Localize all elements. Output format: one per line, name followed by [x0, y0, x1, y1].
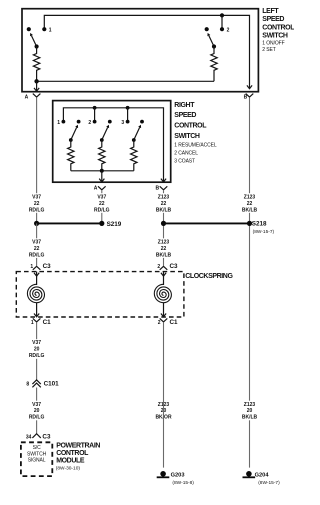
svg-text:1: 1 [57, 120, 60, 126]
node 3 (right speed control switch) [126, 106, 130, 110]
label wire Z123 22 BK/LB (col B left box) [237, 193, 262, 213]
svg-text:G203: G203 [171, 472, 185, 478]
label wire Z123 22 BK/LB (below junction) [151, 238, 176, 258]
wire A drop to box edge [36, 81, 38, 91]
svg-text:SIGNAL: SIGNAL [28, 458, 46, 464]
svg-text:BK/LB: BK/LB [242, 208, 258, 214]
svg-text:RD/LG: RD/LG [29, 208, 45, 214]
label wire V37 22 RD/LG (col A right box) [89, 193, 114, 213]
node 1 (left speed control switch) [42, 27, 46, 31]
coil left (clockspring spiral) [27, 284, 44, 302]
switch blade S4 (cancel) [102, 128, 108, 141]
wire splice jumper S218 [164, 222, 250, 224]
switch blade S2 (set) [209, 36, 214, 47]
wire resistor bottoms bus y81 [37, 80, 214, 82]
wire Z123 from right box pin B down [163, 190, 165, 266]
left speed control switch box outline [22, 9, 258, 92]
arrow at pin B exit (right box) [161, 179, 166, 182]
wire top bus inside left switch box [44, 15, 249, 88]
label wire Z123 22 BK/LB (col B right box) [151, 193, 176, 213]
switch blade S3 (resume/accel) [71, 128, 77, 141]
arrow at pin A exit [34, 88, 39, 91]
right speed control switch box outline [53, 101, 171, 183]
svg-text:S/C: S/C [33, 445, 42, 451]
arrow at pin B exit [247, 85, 252, 88]
svg-text:22: 22 [34, 246, 40, 252]
wire V37 from C1 down to C101 [36, 322, 38, 380]
contact dot left of node 2 [205, 27, 209, 31]
svg-text:V37: V37 [32, 340, 41, 346]
svg-text:2: 2 [88, 120, 91, 126]
label wire V37 20 RD/LG (below C101) [24, 401, 49, 421]
wire top bus inside right switch box [63, 108, 163, 182]
connector chevron pin B (right box) [160, 186, 168, 190]
svg-text:A: A [25, 94, 29, 100]
svg-text:V37: V37 [97, 194, 106, 200]
powertrain control module dashed box [21, 442, 52, 476]
connector chevron pin 2 C1 [160, 318, 168, 322]
connector chevron pin 34 C3 PCM [32, 434, 40, 438]
svg-text:(8W-30-10): (8W-30-10) [56, 466, 81, 472]
svg-text:BK/LB: BK/LB [156, 253, 172, 259]
svg-text:Z123: Z123 [244, 402, 256, 408]
svg-text:22: 22 [99, 201, 105, 207]
svg-text:RD/LG: RD/LG [29, 353, 45, 359]
resistor R1 (on/off) [33, 47, 39, 82]
svg-text:C3: C3 [43, 263, 52, 270]
svg-text:3 COAST: 3 COAST [174, 158, 195, 164]
svg-text:3: 3 [121, 120, 124, 126]
connector chevron pin A (right box) [98, 186, 106, 190]
svg-text:BK/LB: BK/LB [242, 415, 258, 421]
svg-text:22: 22 [161, 246, 167, 252]
switch blade S1 (on/off) [32, 36, 37, 47]
svg-text:2 CANCEL: 2 CANCEL [174, 150, 198, 156]
svg-text:20: 20 [34, 347, 40, 353]
wire into clockspring pin 2 with arrow [163, 272, 165, 285]
svg-text:V37: V37 [32, 402, 41, 408]
svg-text:(8W-15-8): (8W-15-8) [172, 480, 194, 486]
wire splice jumper S219 [37, 222, 102, 224]
contact dot left of node 1 [27, 27, 31, 31]
svg-text:POWERTRAIN: POWERTRAIN [56, 443, 100, 450]
svg-text:CONTROL: CONTROL [174, 123, 207, 130]
svg-text:1: 1 [49, 28, 52, 34]
svg-text:RD/LG: RD/LG [29, 253, 45, 259]
svg-text:22: 22 [247, 201, 253, 207]
svg-text:B: B [155, 185, 159, 191]
svg-text:C3: C3 [170, 263, 179, 270]
svg-text:BK/LB: BK/LB [156, 208, 172, 214]
wire Z123 from left box pin B down [249, 97, 251, 467]
junction dot at A drop (right box) [100, 169, 104, 173]
svg-text:SWITCH: SWITCH [27, 451, 47, 457]
wire resistor bottoms bus y171 [71, 170, 134, 172]
resistor R3 (resume/accel) [68, 140, 74, 171]
node 1 (right speed control switch) [62, 120, 66, 124]
junction dot left [34, 221, 39, 226]
node 2 (left speed control switch) [220, 13, 224, 17]
wire A drop to box edge [101, 171, 103, 182]
svg-text:2: 2 [157, 264, 160, 270]
svg-text:C1: C1 [170, 319, 179, 326]
wire V37 from right box pin A down [101, 190, 103, 223]
resistor R2 (set) [211, 47, 217, 82]
svg-text:20: 20 [34, 408, 40, 414]
contact dot right of node 3 [140, 120, 144, 124]
connector chevron pin B [246, 94, 254, 98]
wire out of clockspring pin 1 with arrow [36, 303, 38, 317]
svg-text:SWITCH: SWITCH [174, 133, 200, 140]
coil right (clockspring spiral) [154, 284, 171, 302]
svg-text:8: 8 [26, 381, 29, 387]
wire V37 from left box pin A down [36, 97, 38, 223]
svg-text:RD/LG: RD/LG [29, 415, 45, 421]
svg-text:22: 22 [161, 201, 167, 207]
wire into clockspring pin 1 with arrow [36, 272, 38, 285]
svg-text:1 RESUME/ACCEL: 1 RESUME/ACCEL [174, 142, 217, 148]
node 2 (right speed control switch) [93, 106, 97, 110]
resistor R5 (coast) [131, 140, 137, 171]
contact dot right of node 2 [108, 120, 112, 124]
svg-text:C1: C1 [43, 319, 52, 326]
splice S218 [247, 221, 252, 226]
svg-text:CONTROL: CONTROL [262, 24, 294, 31]
svg-text:G204: G204 [255, 472, 270, 478]
label wire V37 22 RD/LG (col A left) [24, 193, 49, 213]
ground G203 [157, 471, 195, 486]
label wire V37 20 RD/LG (below C1) [24, 339, 49, 359]
svg-text:C3: C3 [42, 433, 51, 440]
svg-text:LEFT: LEFT [262, 8, 279, 15]
svg-text:2 SET: 2 SET [262, 47, 275, 53]
svg-text:(8W-15-7): (8W-15-7) [258, 480, 280, 486]
svg-text:SPEED: SPEED [174, 112, 196, 119]
svg-text:RIGHT: RIGHT [174, 102, 195, 109]
svg-text:B: B [244, 94, 248, 100]
wire Z123 from C1 pin2 down to G203 [163, 322, 165, 468]
svg-text:20: 20 [247, 408, 253, 414]
junction dot z123 [161, 221, 166, 226]
svg-text:2: 2 [227, 28, 230, 34]
svg-text:2: 2 [158, 320, 161, 326]
resistor R4 (cancel) [99, 140, 105, 171]
svg-text:SWITCH: SWITCH [262, 33, 288, 40]
junction dot at A drop [34, 79, 38, 83]
svg-text:Z123: Z123 [158, 239, 170, 245]
svg-text:(8W-15-7): (8W-15-7) [253, 229, 275, 235]
wire out of clockspring pin 2 with arrow [163, 303, 165, 317]
label wire Z123 20 BK/OR (to G203) [151, 401, 176, 421]
contact dot right of node 1 [77, 120, 81, 124]
svg-text:SPEED: SPEED [262, 16, 284, 23]
connector chevron pin 2 C3 clockspring [160, 266, 168, 270]
in-line connector C101 (double chevron) [32, 380, 40, 384]
svg-text:S218: S218 [252, 221, 267, 228]
svg-text:CONTROL: CONTROL [56, 450, 89, 457]
label wire Z123 20 BK/LB (to G204) [237, 401, 262, 421]
svg-text:V37: V37 [32, 194, 41, 200]
svg-text:V37: V37 [32, 239, 41, 245]
wire V37 below S219 [36, 223, 38, 265]
svg-text:Z123: Z123 [244, 194, 256, 200]
svg-text:1 ON/OFF: 1 ON/OFF [262, 40, 284, 46]
connector chevron pin A [33, 94, 41, 98]
svg-text:CLOCKSPRING: CLOCKSPRING [185, 273, 233, 280]
svg-text:22: 22 [34, 201, 40, 207]
svg-text:1: 1 [30, 264, 33, 270]
svg-text:Z123: Z123 [158, 194, 170, 200]
connector chevron pin 1 C1 [33, 318, 41, 322]
svg-text:MODULE: MODULE [56, 458, 85, 465]
ground G204 [243, 471, 281, 486]
svg-text:34: 34 [26, 434, 32, 440]
svg-text:A: A [94, 185, 98, 191]
svg-text:S219: S219 [107, 221, 122, 228]
arrow at pin A exit (right box) [99, 179, 104, 182]
svg-text:C101: C101 [44, 380, 60, 387]
connector chevron pin 1 C3 clockspring [33, 266, 41, 270]
svg-text:RD/LG: RD/LG [94, 208, 110, 214]
switch blade S5 (coast) [134, 128, 140, 141]
svg-text:1: 1 [31, 320, 34, 326]
label wire V37 22 RD/LG (below S219) [24, 238, 49, 258]
splice S219 [99, 221, 104, 226]
clockspring dashed box [16, 272, 184, 317]
wire V37 from C101 down to PCM [36, 388, 38, 434]
